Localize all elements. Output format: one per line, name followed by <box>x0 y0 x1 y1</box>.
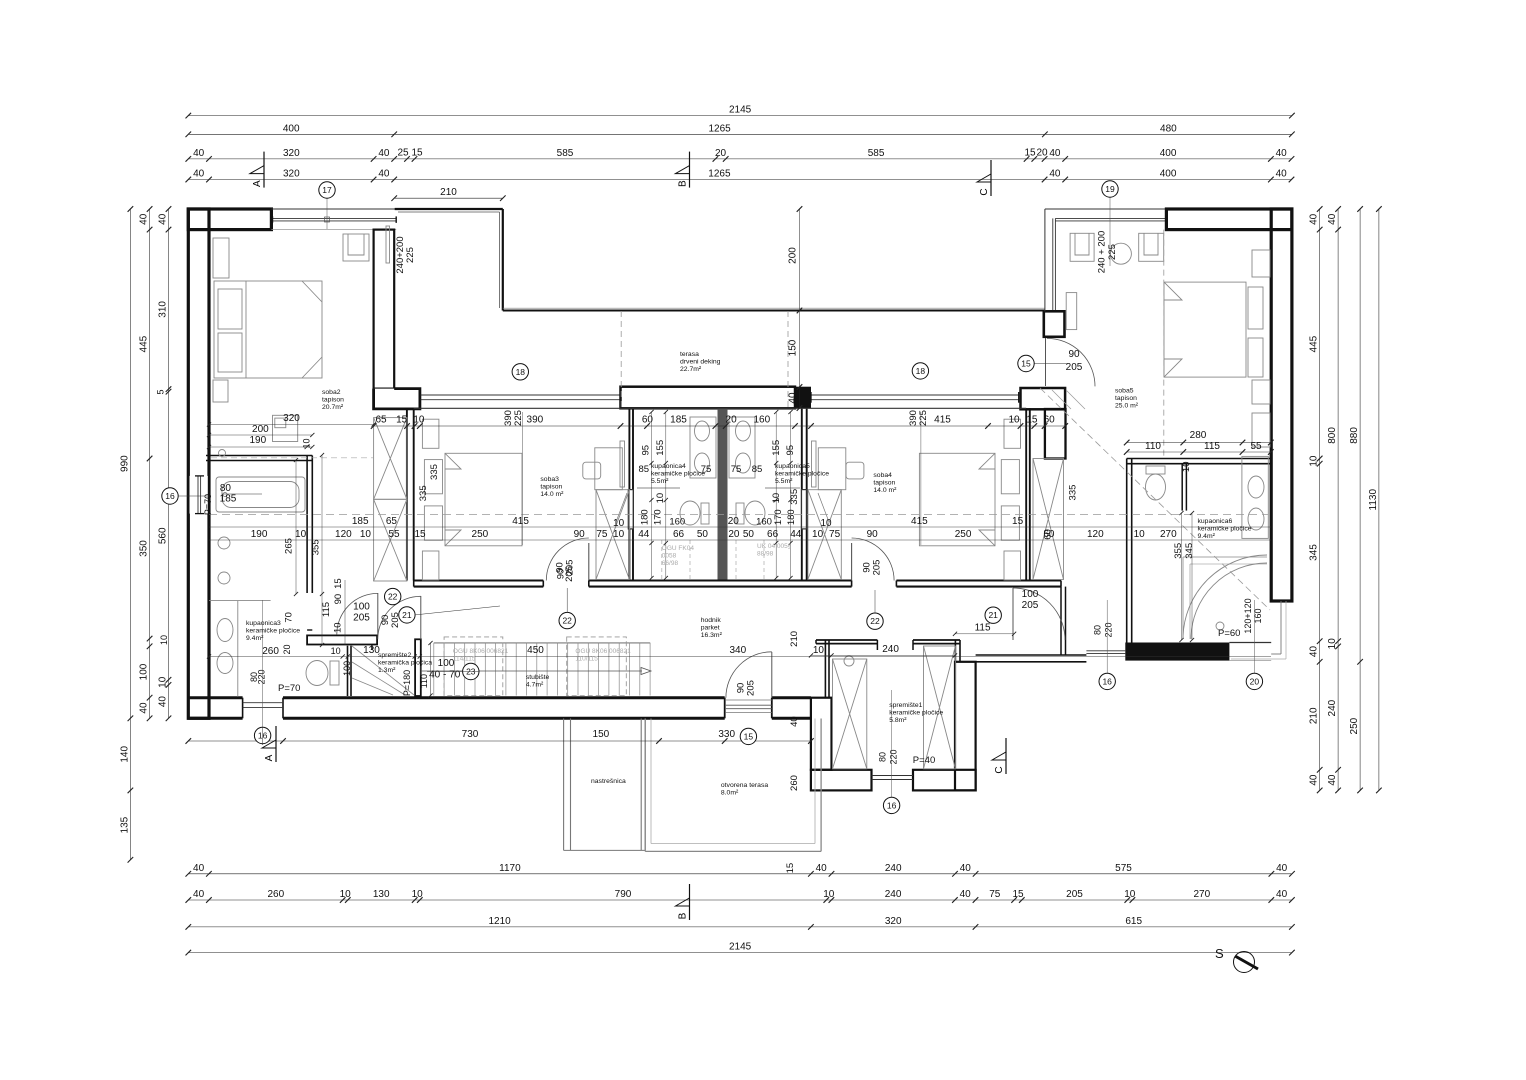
nightstand soba5 top <box>1252 250 1270 277</box>
wall: kup6 south solid band <box>1125 643 1229 661</box>
wall: terrace north wall <box>503 310 1045 312</box>
section marker C bottom <box>992 738 1006 774</box>
svg-text:19: 19 <box>1105 184 1115 194</box>
svg-text:210: 210 <box>1309 707 1320 724</box>
tv soba2 <box>386 226 390 263</box>
nightstand soba3 top <box>422 419 439 448</box>
nightstand soba4 bottom <box>1004 551 1021 580</box>
window: soba5 north glazing <box>1045 208 1167 210</box>
svg-text:40: 40 <box>1309 774 1320 786</box>
svg-text:OGU FK04: OGU FK04 <box>662 545 695 552</box>
wall: WC divider <box>1181 464 1183 511</box>
svg-text:40: 40 <box>1049 169 1061 180</box>
svg-text:730: 730 <box>462 729 479 740</box>
dim 330/150 row below <box>188 740 811 742</box>
svg-text:80: 80 <box>220 483 232 494</box>
dashed terrace edges <box>620 311 622 408</box>
armchair soba5 east <box>1139 233 1164 261</box>
dim row stairs 450/340 <box>421 655 1271 657</box>
svg-text:320: 320 <box>283 413 300 424</box>
desk soba4 <box>818 448 846 490</box>
svg-text:10: 10 <box>820 518 832 529</box>
svg-text:C: C <box>979 188 990 195</box>
wall: soba2 SE corner L <box>374 389 420 409</box>
dim lines kup3 vertical <box>295 460 297 594</box>
circle 23 <box>463 663 479 679</box>
svg-text:110: 110 <box>1145 441 1161 452</box>
north symbol <box>1215 946 1258 973</box>
circle 15 bottom <box>740 728 756 744</box>
dim row mid 415/185 <box>209 526 1271 528</box>
svg-text:5.8m²: 5.8m² <box>889 717 907 724</box>
svg-text:65: 65 <box>386 516 398 527</box>
svg-text:265: 265 <box>284 538 295 554</box>
svg-text:205: 205 <box>564 560 575 576</box>
svg-text:335: 335 <box>429 464 440 480</box>
svg-text:155: 155 <box>655 440 666 456</box>
svg-text:25: 25 <box>397 148 409 159</box>
svg-text:205: 205 <box>872 560 883 576</box>
svg-text:40: 40 <box>1309 646 1320 658</box>
circle 22 east <box>867 613 883 629</box>
svg-text:hodnik: hodnik <box>701 617 722 624</box>
dim 210 protrusion <box>391 187 505 201</box>
svg-text:75: 75 <box>596 529 608 540</box>
dim left col A <box>139 206 153 721</box>
svg-text:20: 20 <box>726 415 738 426</box>
svg-text:17: 17 <box>322 185 332 195</box>
svg-text:kupaonica3: kupaonica3 <box>246 620 281 627</box>
svg-text:22.7m²: 22.7m² <box>680 366 702 373</box>
svg-text:otvorena terasa: otvorena terasa <box>721 782 768 789</box>
wall: hodnik/stub east wall <box>1060 587 1062 655</box>
stairs direction arrow <box>421 670 642 672</box>
svg-text:UK 04 005§: UK 04 005§ <box>757 543 792 550</box>
label spremiste2 <box>378 652 432 674</box>
svg-text:22: 22 <box>562 616 572 626</box>
circle 17 <box>319 182 335 198</box>
svg-text:18: 18 <box>916 366 926 376</box>
circle 16 spremiste1 <box>883 797 899 813</box>
nightstand soba2 top <box>213 238 229 278</box>
svg-text:10: 10 <box>331 646 341 656</box>
svg-text:C: C <box>994 766 1005 773</box>
svg-text:spremište1: spremište1 <box>889 702 922 709</box>
svg-text:10: 10 <box>412 889 424 900</box>
svg-text:75: 75 <box>731 464 742 475</box>
svg-text:20: 20 <box>728 529 740 540</box>
svg-text:2145: 2145 <box>729 942 752 953</box>
svg-text:560: 560 <box>158 527 169 544</box>
svg-text:225: 225 <box>1107 244 1118 260</box>
window soba2 north 240+200 <box>271 208 408 210</box>
wall: soba3/kupaonica4 partition <box>628 408 630 580</box>
svg-text:tapison: tapison <box>1115 395 1137 402</box>
label terasa <box>680 351 721 373</box>
svg-text:130: 130 <box>373 889 390 900</box>
svg-text:55: 55 <box>388 529 400 540</box>
circle 15 soba5 <box>1018 355 1034 371</box>
svg-text:40: 40 <box>193 863 205 874</box>
svg-text:OGU 8K06 006821: OGU 8K06 006821 <box>453 648 509 655</box>
svg-text:10: 10 <box>413 415 425 426</box>
section marker B bottom <box>676 884 690 920</box>
washbasin kupaonica3 <box>209 600 271 602</box>
gray ref OGU FK04 <box>662 545 695 567</box>
svg-text:120: 120 <box>335 529 352 540</box>
wall: east exterior wall <box>1271 209 1292 601</box>
svg-text:415: 415 <box>911 516 928 527</box>
svg-text:P=40: P=40 <box>913 755 935 766</box>
svg-text:1.3m²: 1.3m² <box>378 667 396 674</box>
svg-text:120: 120 <box>1087 529 1104 540</box>
svg-text:240: 240 <box>1327 699 1338 716</box>
bed soba4 <box>919 453 995 546</box>
svg-text:stubište: stubište <box>526 674 550 681</box>
svg-text:9.4m²: 9.4m² <box>246 635 264 642</box>
svg-text:320: 320 <box>283 148 300 159</box>
svg-text:10: 10 <box>812 529 824 540</box>
wall: south exterior wall <box>188 696 242 699</box>
svg-text:10: 10 <box>1124 889 1136 900</box>
svg-text:250: 250 <box>472 529 489 540</box>
closet spremiste1 west (X) <box>833 659 867 769</box>
window: kup6 south 80 <box>1086 650 1125 652</box>
svg-text:335: 335 <box>418 485 429 501</box>
radiator soba3 <box>620 441 625 487</box>
svg-text:22: 22 <box>870 616 880 626</box>
svg-text:10: 10 <box>302 438 312 448</box>
boiler circle spremiste1 <box>844 656 854 666</box>
svg-text:480: 480 <box>1160 123 1177 134</box>
svg-text:40: 40 <box>139 702 150 714</box>
svg-text:150: 150 <box>788 339 799 356</box>
svg-text:drveni deking: drveni deking <box>680 359 721 366</box>
svg-text:210: 210 <box>440 187 457 198</box>
svg-text:15: 15 <box>411 148 423 159</box>
svg-text:205: 205 <box>353 613 370 624</box>
svg-text:270: 270 <box>1193 889 1210 900</box>
svg-text:205: 205 <box>745 680 756 696</box>
svg-text:A: A <box>264 754 275 761</box>
svg-text:14.0 m²: 14.0 m² <box>873 487 897 494</box>
floor drain kup6 <box>1216 622 1224 630</box>
svg-text:110: 110 <box>419 674 429 688</box>
svg-text:4.7m²: 4.7m² <box>526 682 544 689</box>
toilet kupaonica3 <box>306 661 328 686</box>
circle 18 east <box>912 363 928 379</box>
stairs stubiste <box>434 643 650 696</box>
svg-text:1170: 1170 <box>499 863 521 874</box>
wall: kupaonica3 south T-wall <box>307 635 377 644</box>
svg-text:135: 135 <box>119 816 130 833</box>
svg-text:66/98: 66/98 <box>662 560 679 567</box>
svg-text:220: 220 <box>257 669 267 684</box>
vanity kupaonica4 <box>690 417 716 478</box>
svg-text:100: 100 <box>342 661 352 676</box>
svg-text:14.0 m²: 14.0 m² <box>540 491 564 498</box>
svg-text:66: 66 <box>673 529 685 540</box>
svg-text:240: 240 <box>882 644 899 655</box>
svg-text:55: 55 <box>1250 441 1262 452</box>
svg-text:40 - 70: 40 - 70 <box>429 670 461 681</box>
svg-text:8.0m²: 8.0m² <box>721 790 739 797</box>
svg-text:445: 445 <box>139 335 150 352</box>
svg-text:80: 80 <box>1092 625 1102 635</box>
window: soba5 west glazing <box>1044 209 1046 311</box>
dim bottom row2 <box>186 889 1295 903</box>
svg-text:40: 40 <box>193 889 205 900</box>
svg-text:1265: 1265 <box>708 123 731 134</box>
door hodnik south exterior <box>771 652 773 698</box>
svg-text:400: 400 <box>1160 169 1177 180</box>
svg-text:575: 575 <box>1115 863 1132 874</box>
eaves line SE corner <box>1271 600 1292 602</box>
svg-text:10: 10 <box>771 493 782 504</box>
svg-text:16: 16 <box>165 491 175 501</box>
svg-text:190: 190 <box>249 435 266 446</box>
svg-text:nastrešnica: nastrešnica <box>591 778 626 785</box>
bed soba2 <box>214 281 322 378</box>
column: soba5 west pillar <box>1044 311 1065 337</box>
svg-text:10: 10 <box>1309 455 1320 467</box>
vanity kupaonica6 <box>1242 456 1268 538</box>
nightstand soba5 bottom <box>1252 380 1270 404</box>
tv soba5 <box>1066 293 1077 330</box>
label kupaonica5 <box>775 463 829 485</box>
svg-text:90: 90 <box>574 529 586 540</box>
svg-text:170: 170 <box>653 509 664 525</box>
toilet WC <box>1146 466 1165 474</box>
svg-text:5: 5 <box>156 389 166 394</box>
svg-text:B: B <box>678 912 689 919</box>
label soba3 <box>540 476 564 498</box>
svg-text:415: 415 <box>934 415 951 426</box>
svg-text:40: 40 <box>193 169 205 180</box>
label otvorena terasa <box>721 782 768 797</box>
stairs landing dashed <box>444 637 503 696</box>
wardrobe soba3 (X) <box>596 490 629 580</box>
wall: kup6 west <box>1126 459 1128 643</box>
svg-text:205: 205 <box>1066 362 1083 373</box>
dim row 280 kup6 <box>1124 440 1274 446</box>
circle 21 east <box>985 607 1001 623</box>
svg-text:155: 155 <box>771 440 782 456</box>
svg-text:345: 345 <box>1184 543 1195 559</box>
svg-text:10: 10 <box>655 493 666 504</box>
svg-text:205: 205 <box>1022 600 1039 611</box>
svg-text:120+120: 120+120 <box>1243 598 1253 633</box>
circle 22 center <box>559 612 575 628</box>
svg-text:10: 10 <box>1327 638 1338 650</box>
svg-text:310: 310 <box>158 301 169 318</box>
svg-text:40: 40 <box>1309 213 1320 225</box>
dim bottom row3 <box>186 916 1295 930</box>
svg-text:40: 40 <box>1276 889 1288 900</box>
bed soba5 <box>1164 282 1246 377</box>
wall: corridor stub south <box>976 654 1087 656</box>
svg-text:445: 445 <box>1309 335 1320 352</box>
door: south exterior door opening w/ steps <box>726 704 772 706</box>
svg-text:40: 40 <box>1276 148 1288 159</box>
svg-text:5.5m²: 5.5m² <box>651 478 669 485</box>
section marker A top <box>250 152 264 188</box>
circle 16 kup6 <box>1099 673 1115 689</box>
svg-text:40: 40 <box>158 696 169 708</box>
svg-text:40: 40 <box>816 863 828 874</box>
svg-text:21: 21 <box>402 610 412 620</box>
window: soba4 terrace sliding door 415 <box>811 394 1019 396</box>
svg-text:P=60: P=60 <box>1218 628 1240 639</box>
svg-text:185: 185 <box>220 494 237 505</box>
dim bottom row1 <box>186 863 1295 877</box>
svg-text:340: 340 <box>729 645 746 656</box>
svg-text:80: 80 <box>878 752 888 762</box>
wardrobe soba4 (X) <box>808 490 841 580</box>
bathtub kupaonica3 <box>216 477 305 512</box>
svg-text:OGU 8K06 006821: OGU 8K06 006821 <box>575 648 631 655</box>
svg-text:75: 75 <box>989 889 1001 900</box>
wall: terrace south band center <box>621 387 796 409</box>
svg-text:200: 200 <box>252 424 269 435</box>
svg-text:225: 225 <box>405 247 416 263</box>
svg-text:40: 40 <box>960 889 972 900</box>
svg-text:350: 350 <box>139 540 150 557</box>
dim top row1 2145 <box>186 105 1295 119</box>
toilet kupaonica5 <box>745 501 765 525</box>
svg-text:keramička pločica: keramička pločica <box>378 660 432 667</box>
svg-text:15: 15 <box>333 578 344 589</box>
wardrobe soba2 upper (X) <box>374 418 407 500</box>
door soba5 <box>1045 338 1047 386</box>
svg-text:10: 10 <box>360 529 372 540</box>
svg-text:keramičke pločice: keramičke pločice <box>651 471 705 478</box>
label soba4 <box>873 472 897 494</box>
svg-text:240: 240 <box>885 863 902 874</box>
svg-text:10: 10 <box>1008 415 1020 426</box>
svg-text:15: 15 <box>1021 359 1031 369</box>
svg-text:10: 10 <box>159 635 169 645</box>
nightstand soba4 top <box>1004 419 1021 448</box>
svg-text:585: 585 <box>868 148 885 159</box>
svg-text:15: 15 <box>1012 889 1024 900</box>
dim lines inside kup4/kup5 <box>651 412 653 578</box>
svg-text:345: 345 <box>1309 544 1320 561</box>
svg-text:B: B <box>678 180 689 187</box>
dresser soba2 <box>273 415 298 441</box>
svg-text:1265: 1265 <box>708 169 731 180</box>
svg-text:40: 40 <box>378 148 390 159</box>
svg-text:260: 260 <box>267 889 284 900</box>
label kupaonica4 <box>651 463 705 485</box>
otvorena terasa border <box>644 719 646 852</box>
svg-text:355: 355 <box>1173 543 1184 559</box>
svg-text:320: 320 <box>283 169 300 180</box>
svg-text:keramičke pločice: keramičke pločice <box>246 628 300 635</box>
dim row mid lower <box>209 539 1271 541</box>
armchair soba2 <box>343 234 369 261</box>
dim row mid-rooms top <box>374 425 1066 427</box>
svg-text:15: 15 <box>744 731 754 741</box>
svg-text:90: 90 <box>333 594 344 605</box>
wall: kupaonica4/kupaonica5 partition <box>718 408 728 580</box>
dim left outer column <box>119 206 133 862</box>
dim right col4 <box>1368 206 1382 793</box>
wall: soba4/soba5 partition <box>1025 408 1027 580</box>
chair soba3 <box>583 462 601 479</box>
dim left col B <box>158 206 172 721</box>
svg-text:10: 10 <box>613 518 625 529</box>
wall: kupaonica3 north <box>206 455 312 457</box>
svg-text:tapison: tapison <box>873 480 895 487</box>
svg-text:20: 20 <box>1036 148 1048 159</box>
wall lamp kup3 <box>219 450 226 457</box>
svg-text:140: 140 <box>119 746 130 763</box>
svg-text:270: 270 <box>1160 529 1177 540</box>
svg-text:100: 100 <box>139 663 150 680</box>
svg-text:P=180: P=180 <box>402 670 412 696</box>
dim lines kup6 vertical <box>1181 513 1183 640</box>
wall: spremiste2 east <box>415 639 421 696</box>
svg-text:keramičke pločice: keramičke pločice <box>889 710 943 717</box>
svg-text:40: 40 <box>139 213 150 225</box>
svg-text:115: 115 <box>321 602 332 617</box>
svg-text:kupaonica5: kupaonica5 <box>775 463 810 470</box>
label spremiste1 <box>889 702 943 724</box>
table soba5 <box>1110 243 1131 264</box>
svg-text:16: 16 <box>1102 676 1112 686</box>
svg-text:22: 22 <box>388 592 398 602</box>
svg-text:85: 85 <box>639 464 650 475</box>
wall: west exterior wall <box>188 209 209 718</box>
circle 19 <box>1102 181 1118 197</box>
wall: spremiste1 north pieces <box>816 639 877 641</box>
wall: hodnik north wall <box>414 579 544 581</box>
section marker A bottom <box>262 726 276 762</box>
svg-text:150: 150 <box>593 729 610 740</box>
circle 20 <box>1246 673 1262 689</box>
door kupaonica5 from soba4 <box>802 490 807 529</box>
svg-text:88/98: 88/98 <box>757 551 774 558</box>
svg-text:220: 220 <box>1103 622 1113 637</box>
svg-text:terasa: terasa <box>680 351 699 358</box>
dashed axis line horizontal <box>209 513 1268 515</box>
wall: kupaonica5/soba4 partition <box>801 408 803 580</box>
nastresnica posts <box>563 719 565 851</box>
svg-text:115: 115 <box>975 623 991 634</box>
section marker B top <box>676 152 690 188</box>
wall: soba2/soba3 partition <box>406 408 408 580</box>
shelf soba5 <box>1252 413 1270 447</box>
svg-text:10: 10 <box>158 676 169 688</box>
svg-text:40: 40 <box>378 169 390 180</box>
svg-text:spremište2: spremište2 <box>378 652 411 659</box>
wall: kup6 north <box>1127 458 1272 460</box>
svg-text:0058: 0058 <box>662 553 677 560</box>
svg-text:1210: 1210 <box>488 916 511 927</box>
svg-text:800: 800 <box>1327 427 1338 444</box>
svg-text:615: 615 <box>1125 916 1142 927</box>
svg-text:585: 585 <box>557 148 574 159</box>
window: soba3 terrace sliding door 390 <box>420 394 621 396</box>
svg-text:20.7m²: 20.7m² <box>322 404 344 411</box>
svg-text:50: 50 <box>697 529 709 540</box>
svg-text:180: 180 <box>786 509 797 525</box>
svg-text:10: 10 <box>340 889 352 900</box>
svg-text:75: 75 <box>829 529 841 540</box>
svg-text:10: 10 <box>1181 462 1192 473</box>
shelf kupaonica4 <box>637 487 680 489</box>
